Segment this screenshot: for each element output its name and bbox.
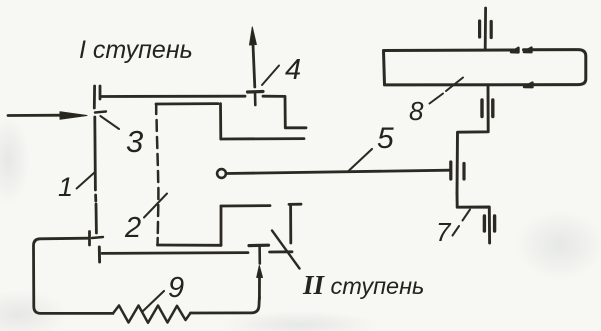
wire: right stub from box 2	[221, 137, 304, 140]
feedback loop wire right	[191, 297, 260, 313]
contact 3 tick	[95, 112, 106, 113]
box 2 top wire	[156, 102, 218, 105]
feedback up arrow	[257, 266, 263, 300]
box 2 left dashed electrode	[156, 104, 158, 245]
leader 2	[144, 194, 167, 218]
transistor 4 stem	[254, 92, 257, 105]
output arrow at 4	[250, 27, 257, 87]
svg-text:II ступень: II ступень	[302, 270, 424, 300]
wire: down to bottom bus	[289, 204, 292, 243]
capacitor above 8 : center line	[484, 8, 487, 49]
contact tick bottom	[92, 237, 103, 238]
svg-text:4: 4	[285, 54, 301, 86]
svg-text:I ступень: I ступень	[79, 36, 193, 64]
wire: top bus right of 4	[263, 96, 306, 128]
capacitor above 8 : left bar	[478, 21, 481, 37]
leader 9	[143, 291, 165, 312]
capacitor below 8 : left bar	[480, 100, 483, 117]
capacitor above 8 : right bar	[490, 22, 493, 38]
scan smudges	[0, 115, 30, 205]
transistor 7 bulk dash	[462, 164, 465, 180]
svg-text:5: 5	[377, 122, 394, 155]
output capacitor left bar	[483, 216, 486, 231]
transfer mark top 1	[511, 48, 519, 53]
leader 5	[349, 149, 372, 171]
capacitor below 8 : center line + step to transistor 7	[457, 85, 488, 193]
bottom plate of bottom bus	[98, 247, 101, 262]
electrode 1 vertical line	[94, 86, 96, 233]
transistor II-stage stem	[258, 246, 261, 264]
capacitor below 8 : right bar	[491, 100, 494, 117]
transistor 4 plate bar	[248, 90, 264, 94]
svg-text:9: 9	[168, 272, 184, 304]
svg-text:1: 1	[58, 172, 73, 202]
wire: top bus stage I	[101, 95, 246, 98]
lead 5	[226, 170, 450, 173]
leader 1	[77, 172, 95, 189]
leader II stage	[272, 231, 300, 269]
gate plate stage I top	[99, 86, 102, 99]
svg-text:2: 2	[124, 212, 141, 244]
box 2 bottom wire	[158, 244, 222, 247]
feedback loop wire left	[34, 238, 114, 313]
transfer mark bottom	[524, 83, 533, 88]
leader 3	[100, 116, 119, 129]
resistor 9	[113, 306, 191, 323]
wire: source of 7 down-right	[457, 193, 490, 243]
transfer mark top 2	[524, 48, 532, 53]
svg-text:3: 3	[126, 124, 143, 159]
wire: bottom bus stage I	[102, 252, 292, 254]
leader 8	[430, 78, 464, 104]
wire: dashed bus to stage II	[221, 204, 301, 206]
leader 7	[453, 210, 471, 236]
node circle	[217, 169, 226, 178]
transistor 7 gate plate	[449, 162, 452, 179]
output capacitor right bar	[493, 216, 496, 231]
transistor II-stage plate bar	[249, 244, 269, 248]
input arrow	[8, 112, 87, 119]
svg-text:8: 8	[409, 96, 424, 126]
register 8 rectangle	[384, 50, 586, 85]
svg-text:7: 7	[436, 217, 452, 247]
box 2 right lower vertical	[220, 206, 223, 245]
contact plate left of electrode (bottom)	[88, 232, 91, 246]
leader 4	[262, 66, 279, 86]
box 2 right upper vertical	[219, 104, 222, 139]
